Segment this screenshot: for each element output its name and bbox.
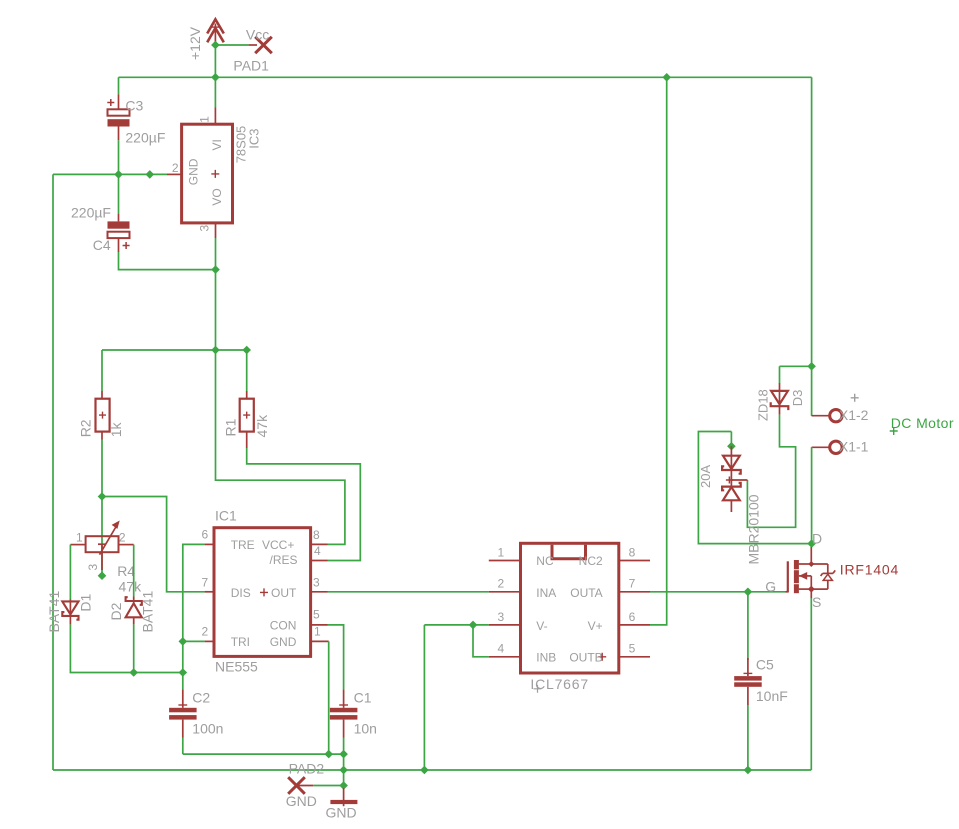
wire bottom rail <box>53 769 811 771</box>
pin 5 OUTB <box>619 656 650 658</box>
svg-text:10n: 10n <box>354 721 377 737</box>
pin 8 NC2 <box>619 560 650 562</box>
junction D2 rail <box>129 668 138 677</box>
pin 2 INA <box>489 591 521 593</box>
wire mid gnd rail <box>183 753 344 755</box>
svg-text:20A: 20A <box>698 465 713 488</box>
junction GND pin rail <box>324 750 333 759</box>
svg-text:47k: 47k <box>119 579 143 595</box>
svg-text:GND: GND <box>326 805 357 821</box>
pin 2 IC3 <box>167 173 182 175</box>
wire left gnd rail vertical <box>52 174 54 770</box>
wire D1 to rail <box>70 624 182 672</box>
svg-text:GND: GND <box>270 635 297 649</box>
svg-text:8: 8 <box>313 528 320 542</box>
svg-text:OUTB: OUTB <box>569 651 602 665</box>
svg-text:IC1: IC1 <box>215 508 237 524</box>
svg-text:NE555: NE555 <box>215 658 258 674</box>
svg-text:47k: 47k <box>254 414 270 438</box>
wire INB to V- <box>473 625 489 657</box>
svg-text:IRF1404: IRF1404 <box>840 561 899 577</box>
diode MBR20100 dual <box>722 446 747 512</box>
pin 2 TRI <box>205 640 214 642</box>
svg-text:2: 2 <box>498 577 505 591</box>
timer IC1 NE555 box <box>214 528 311 657</box>
junction V+ rail <box>662 73 671 82</box>
junction V- pin3 <box>469 621 478 630</box>
diode D1 BAT41 <box>62 600 78 625</box>
wire C3 to gnd rail <box>118 140 120 174</box>
wire top rail Vcc <box>119 76 812 78</box>
wire Vcc vertical to resistor rail <box>215 270 217 350</box>
svg-text:NC2: NC2 <box>579 554 603 568</box>
junction top rail <box>211 73 220 82</box>
connector X1-1 <box>812 441 843 453</box>
svg-text:8: 8 <box>629 545 636 559</box>
svg-text:PAD2: PAD2 <box>289 761 325 777</box>
connector X1-2 <box>812 410 843 422</box>
svg-text:1: 1 <box>76 530 83 544</box>
junction +12V/PAD1 <box>211 41 220 50</box>
svg-text:1: 1 <box>198 116 212 123</box>
pin 4 /RES <box>311 560 328 562</box>
wire MBR top pin <box>730 432 732 447</box>
wire X1-1 to drain <box>811 447 813 543</box>
wire CON to C1 <box>328 625 344 690</box>
svg-text:INB: INB <box>536 651 556 665</box>
junction resistor rail R1 <box>242 346 251 355</box>
junction PAD2 node <box>339 781 348 790</box>
svg-text:2: 2 <box>119 530 126 544</box>
wire C1 node to bottom rail <box>343 754 345 785</box>
svg-text:C4: C4 <box>93 237 111 253</box>
wire left gnd rail horizontal <box>53 173 167 175</box>
pin 1 NC <box>489 560 521 562</box>
junction bottom rail C1 <box>339 766 348 775</box>
pin 3 OUT <box>311 591 328 593</box>
junction wiper <box>98 571 107 580</box>
svg-text:7: 7 <box>202 575 209 589</box>
wire MBR loop <box>698 432 811 544</box>
supply +12V symbol <box>207 19 224 45</box>
svg-text:1: 1 <box>498 545 505 559</box>
wire right rail vertical <box>811 77 813 366</box>
origin cross ICL7667 <box>534 685 542 693</box>
svg-text:MBR20100: MBR20100 <box>745 494 761 564</box>
svg-text:1: 1 <box>314 624 321 638</box>
pin 1 GND <box>311 640 329 642</box>
junction C3/C4 <box>114 170 123 179</box>
svg-text:/RES: /RES <box>269 553 297 567</box>
capacitor C1 <box>330 689 358 754</box>
wire GND pin down <box>328 641 330 754</box>
wire Vcc down to pin8 route <box>216 350 345 544</box>
wire ZD18 branch top <box>780 365 812 367</box>
wire resistor rail <box>102 349 247 351</box>
svg-text:G: G <box>765 579 776 595</box>
junction drain <box>807 539 816 548</box>
svg-text:VI: VI <box>210 139 224 150</box>
junction C2 rail <box>179 668 188 677</box>
wire V+ to top rail <box>650 77 667 625</box>
svg-text:3: 3 <box>498 610 505 624</box>
svg-text:BAT41: BAT41 <box>140 591 156 633</box>
svg-text:R2: R2 <box>77 419 93 437</box>
wire R2 bottom to DIS <box>102 497 205 592</box>
svg-text:V+: V+ <box>588 619 603 633</box>
capacitor C5 <box>734 592 762 770</box>
wire C3 branch <box>118 77 120 94</box>
svg-text:GND: GND <box>187 158 201 185</box>
pin 6 V+ <box>619 624 650 626</box>
wire TRI to bottom rail <box>182 641 184 672</box>
transistor Q1 IRF1404 <box>786 547 836 598</box>
junction R2 bottom <box>98 492 107 501</box>
wire C4 bottom <box>119 252 216 270</box>
label + X1-2 <box>851 394 859 402</box>
pad PAD2 X symbol <box>288 777 313 794</box>
diode D3 ZD18 <box>771 383 789 415</box>
svg-text:R4: R4 <box>117 563 135 579</box>
svg-text:Vcc: Vcc <box>246 27 269 43</box>
wire ZD18 to MBR cathode <box>747 415 795 528</box>
wire pot pin2 to D2 <box>133 545 135 597</box>
svg-text:D: D <box>812 531 822 547</box>
capacitor C4 <box>108 174 130 252</box>
wire +12V stem to rail <box>214 45 216 77</box>
svg-text:IC3: IC3 <box>247 128 262 148</box>
svg-text:C3: C3 <box>125 98 143 114</box>
svg-text:5: 5 <box>313 607 320 621</box>
svg-text:OUTA: OUTA <box>570 586 602 600</box>
svg-text:6: 6 <box>202 528 209 542</box>
svg-text:X1-1: X1-1 <box>839 439 869 455</box>
svg-text:DC Motor: DC Motor <box>891 415 954 431</box>
svg-text:VCC+: VCC+ <box>262 538 294 552</box>
resistor R1 <box>240 350 254 448</box>
svg-text:NC: NC <box>536 554 554 568</box>
wire OUT to INA <box>328 591 489 593</box>
svg-text:INA: INA <box>536 586 556 600</box>
svg-text:100n: 100n <box>192 721 223 737</box>
svg-text:4: 4 <box>314 544 321 558</box>
pin 3 V- <box>489 624 521 626</box>
svg-text:220µF: 220µF <box>125 129 165 145</box>
svg-text:3: 3 <box>86 564 100 571</box>
diode D2 BAT41 <box>126 597 142 625</box>
wire D2 to rail <box>133 624 135 672</box>
svg-text:7: 7 <box>629 577 636 591</box>
svg-text:GND: GND <box>286 793 317 809</box>
svg-text:X1-2: X1-2 <box>839 407 869 423</box>
wire V- net left <box>424 624 488 626</box>
svg-text:4: 4 <box>498 642 505 656</box>
wire TRE to TRI <box>183 544 205 641</box>
svg-text:+12V: +12V <box>187 26 203 60</box>
svg-text:5: 5 <box>629 642 636 656</box>
svg-text:C2: C2 <box>192 689 210 705</box>
wire TRI junction <box>183 640 205 642</box>
svg-text:PAD1: PAD1 <box>233 57 269 73</box>
junction pin2 wire <box>146 170 155 179</box>
resistor R2 <box>96 350 110 497</box>
svg-text:BAT41: BAT41 <box>46 591 62 633</box>
wire V- net down <box>423 625 425 770</box>
pad PAD1 (Vcc X symbol) <box>249 37 272 53</box>
pin 1 IC3 <box>214 77 216 124</box>
ground symbol <box>330 788 357 806</box>
potentiometer R4 <box>70 521 133 571</box>
wire R1 to /RES <box>247 448 361 561</box>
svg-text:10nF: 10nF <box>756 688 788 704</box>
svg-text:2: 2 <box>172 161 179 175</box>
svg-text:VO: VO <box>210 188 224 205</box>
wire source down <box>810 598 812 770</box>
wire X1-2 drop <box>811 366 813 416</box>
pin 3 IC3 <box>215 223 217 270</box>
svg-text:D1: D1 <box>78 593 94 611</box>
junction V- bottom <box>420 766 429 775</box>
junction IC3 pin3/C4 <box>211 265 220 274</box>
svg-text:OUT: OUT <box>271 586 297 600</box>
svg-text:220µF: 220µF <box>71 205 111 221</box>
junction C1 rail <box>339 750 348 759</box>
wire pot pin1 to D1 <box>69 545 71 600</box>
pin 7 DIS <box>205 591 214 593</box>
pin 8 VCC+ <box>311 543 328 545</box>
svg-text:C5: C5 <box>756 656 774 672</box>
pin 7 OUTA <box>619 591 650 593</box>
pin 4 INB <box>489 656 521 658</box>
svg-text:6: 6 <box>629 610 636 624</box>
capacitor C3 <box>107 94 129 140</box>
svg-text:2: 2 <box>202 624 209 638</box>
junction gate node <box>744 588 753 597</box>
svg-text:D2: D2 <box>108 602 124 620</box>
pin 5 CON <box>311 624 328 626</box>
voltage regulator IC3 box <box>182 124 233 223</box>
svg-text:1k: 1k <box>108 422 124 438</box>
svg-text:3: 3 <box>313 575 320 589</box>
driver IC2 ICL7667 box <box>521 543 619 673</box>
svg-text:DIS: DIS <box>231 586 251 600</box>
junction ZD18 branch <box>807 362 816 371</box>
svg-text:3: 3 <box>198 225 212 232</box>
pin 6 TRE <box>205 543 214 545</box>
capacitor C2 <box>169 673 197 755</box>
wire ZD18 top lead <box>779 366 781 383</box>
wire junction to PAD1 <box>215 44 248 46</box>
junction MBR anode <box>727 442 736 451</box>
svg-text:C1: C1 <box>354 689 372 705</box>
junction C5 bottom <box>744 766 753 775</box>
svg-text:D3: D3 <box>790 390 805 407</box>
svg-text:S: S <box>812 594 821 610</box>
svg-text:R1: R1 <box>223 418 239 436</box>
svg-text:TRI: TRI <box>231 635 250 649</box>
svg-text:V-: V- <box>536 619 547 633</box>
wire PAD2 to gnd node <box>313 785 343 787</box>
svg-text:CON: CON <box>270 619 297 633</box>
origin cross DC Motor <box>890 427 898 435</box>
wire wiper vertical <box>101 497 103 576</box>
svg-text:ZD18: ZD18 <box>756 389 771 421</box>
origin cross NE555 <box>260 588 268 596</box>
junction TRI <box>179 637 188 646</box>
svg-text:TRE: TRE <box>231 538 255 552</box>
wire OUTA to gate <box>650 591 786 593</box>
junction resistor rail main <box>211 346 220 355</box>
